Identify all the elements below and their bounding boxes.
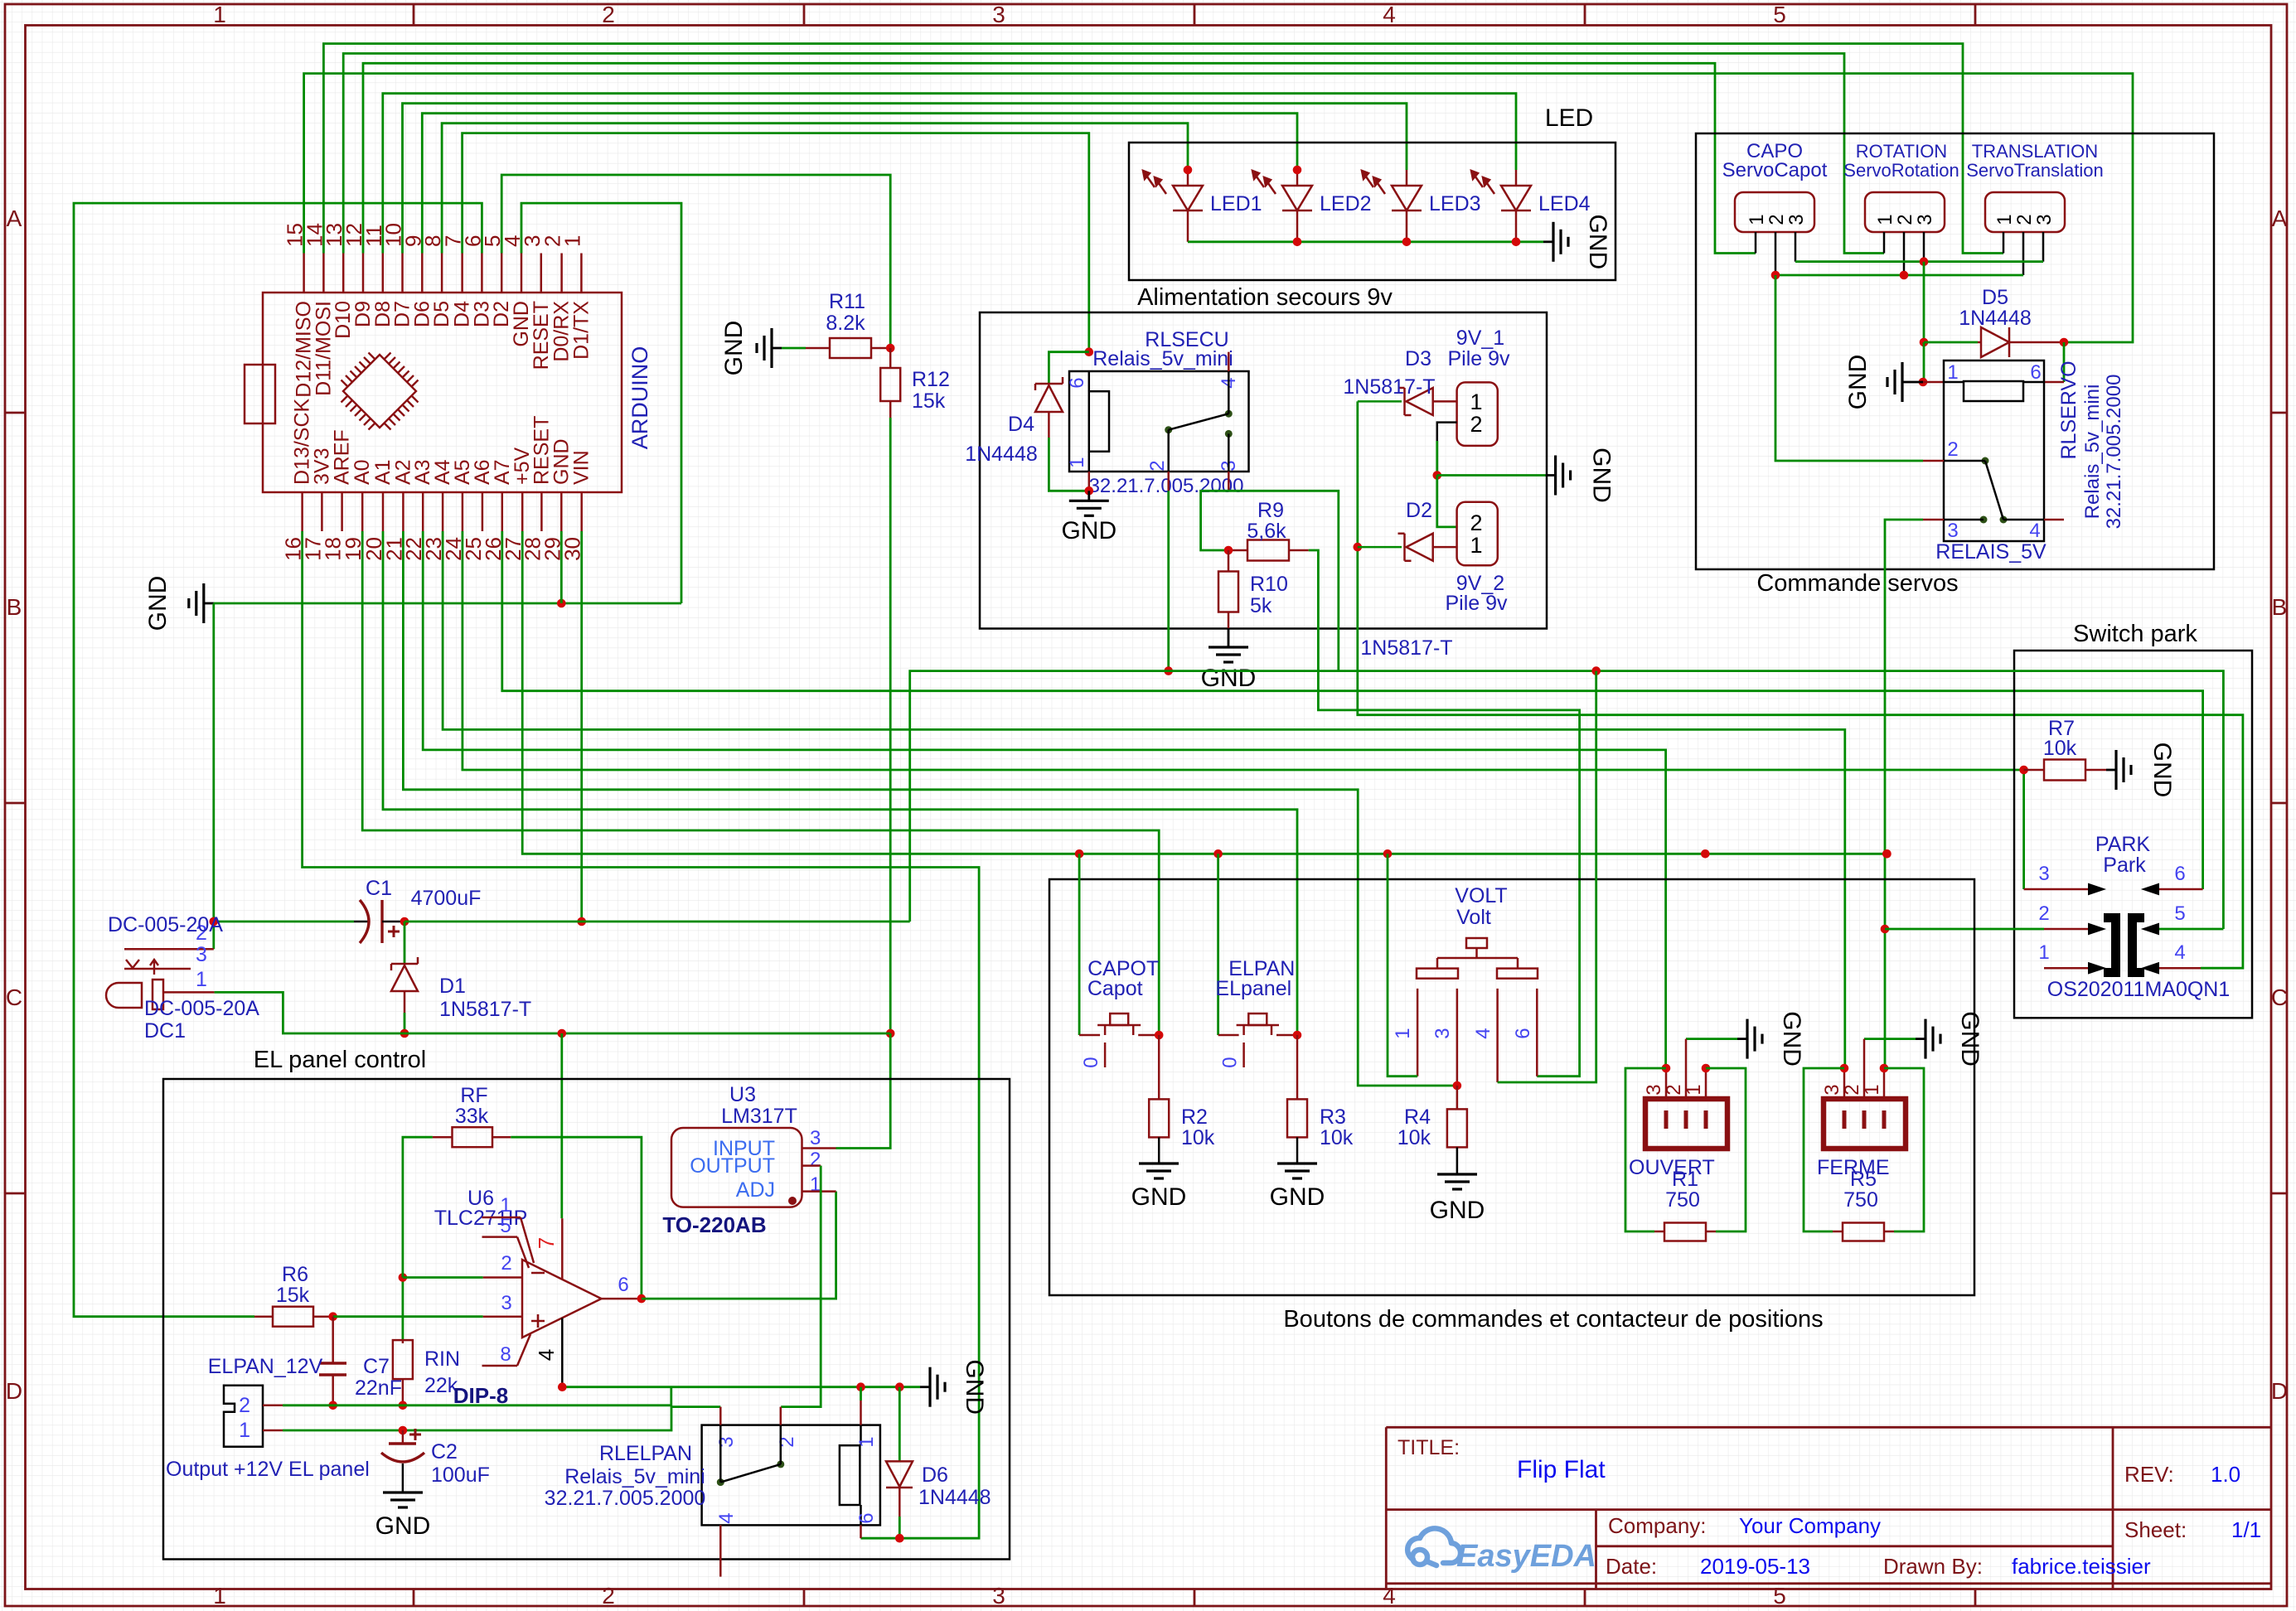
svg-text:1.0: 1.0: [2211, 1462, 2240, 1487]
DC1 pin2 lead: [124, 948, 214, 951]
wire +12V riser to park line: [910, 671, 2224, 929]
commande servos box: [1696, 133, 2214, 569]
wire R9 to VOLT pin6: [1309, 550, 1580, 1076]
svg-text:R5: R5: [1850, 1168, 1877, 1191]
svg-text:8.2k: 8.2k: [826, 312, 865, 335]
servo connector pin stubs: [1755, 232, 1757, 254]
svg-text:Switch park: Switch park: [2073, 621, 2197, 647]
wire D5 anode: [1924, 341, 1978, 344]
junction +5V at CAPOT: [1075, 849, 1084, 859]
wire D7 pin10 to LED3: [403, 104, 1407, 254]
servo connector CAPO: [1735, 192, 1814, 232]
svg-text:6: 6: [2174, 863, 2185, 885]
ground symbol OUVERT pin2: [1686, 1038, 1737, 1040]
junction relay pin1 gnd: [856, 1382, 865, 1391]
svg-text:1: 1: [1470, 533, 1482, 558]
svg-text:1: 1: [559, 235, 584, 247]
svg-text:32.21.7.005.2000: 32.21.7.005.2000: [545, 1487, 706, 1510]
svg-text:750: 750: [1843, 1188, 1878, 1212]
svg-text:1N5817-T: 1N5817-T: [439, 998, 531, 1021]
barrel jack DC1: [106, 980, 163, 1009]
junction +5V at OUVERT pin1: [1701, 849, 1710, 859]
junction D2 anode on rail: [1354, 543, 1363, 552]
svg-text:Company:: Company:: [1608, 1513, 1707, 1538]
svg-text:3: 3: [715, 1436, 738, 1447]
connector OUVERT: [1645, 1099, 1727, 1149]
svg-text:1: 1: [213, 1583, 226, 1609]
junction D6 top gnd: [895, 1382, 904, 1391]
DC1 pin1 lead: [163, 991, 215, 994]
wire GND vertical to DC jack: [212, 603, 215, 949]
button CAPOT: [1079, 1034, 1100, 1037]
resistor R3: [1296, 1035, 1299, 1099]
svg-text:6: 6: [618, 1274, 628, 1296]
svg-text:D: D: [2271, 1378, 2288, 1404]
svg-text:1: 1: [1947, 361, 1958, 384]
svg-text:2: 2: [1146, 460, 1169, 471]
svg-text:3: 3: [1914, 214, 1936, 225]
wire battery diodes common rail: [1358, 401, 2243, 968]
svg-text:B: B: [2272, 594, 2288, 620]
diode D2: [1358, 534, 1457, 561]
wire U3 OUTPUT to relay pin2: [781, 1166, 821, 1407]
switch park box: [2014, 651, 2252, 1018]
relay RLELPAN coil: [840, 1445, 860, 1505]
svg-text:0: 0: [1080, 1057, 1102, 1067]
svg-text:Flip Flat: Flip Flat: [1517, 1456, 1606, 1483]
arduino bottom pin stubs: [301, 492, 303, 531]
wire D4 to pin1 node: [1049, 438, 1088, 491]
svg-text:3: 3: [1643, 1084, 1665, 1095]
svg-text:Date:: Date:: [1606, 1554, 1657, 1579]
wire CAPOT feed: [1078, 854, 1081, 1035]
svg-text:10k: 10k: [1181, 1126, 1215, 1149]
connector FERME: [1824, 1099, 1906, 1149]
relay RLSECU pin3 stub: [1228, 472, 1230, 491]
svg-text:REV:: REV:: [2124, 1462, 2174, 1487]
junction servo pwr at ROTATION: [1900, 271, 1909, 280]
wire D9 pin12 to CAPO pin1: [363, 63, 1756, 253]
junction servo pwr at CAPO: [1771, 271, 1780, 280]
resistor R10: [1228, 550, 1230, 572]
wire D3 pin6 left rail to R6: [74, 203, 482, 1317]
ground symbol LED rail: [1543, 240, 1553, 243]
LED section box: [1129, 143, 1615, 280]
arduino crystal rectangle: [245, 365, 275, 423]
svg-text:4: 4: [1383, 2, 1396, 27]
resistor R1 loop: [1625, 1068, 1666, 1231]
svg-text:R3: R3: [1320, 1105, 1346, 1129]
servo connector TRANSLATION: [1985, 192, 2065, 232]
svg-text:ARDUINO: ARDUINO: [627, 346, 652, 450]
svg-text:6: 6: [1066, 377, 1088, 388]
svg-text:D5: D5: [1982, 286, 2008, 309]
svg-text:ELpanel: ELpanel: [1215, 977, 1291, 1000]
svg-text:2: 2: [602, 2, 615, 27]
opamp U6 pin1 stub: [482, 1217, 521, 1219]
svg-text:GND: GND: [1584, 214, 1611, 269]
wire servo power bus pin2: [1775, 274, 2023, 277]
wire VOLT pin1 to +5: [1388, 854, 1417, 1076]
svg-text:6: 6: [855, 1512, 878, 1523]
junction RIN RF opamp minus: [399, 1273, 408, 1282]
wire DC1 pin1 to raw12 rail: [215, 992, 891, 1033]
wire RF to opamp output node: [511, 1137, 642, 1299]
title block outline: [1386, 1426, 2271, 1429]
junction pin29 GND: [557, 599, 566, 608]
svg-text:DC-005-20A: DC-005-20A: [144, 997, 259, 1020]
svg-text:C2: C2: [431, 1440, 458, 1463]
svg-text:10k: 10k: [1320, 1126, 1354, 1149]
battery connector 9V_1: [1457, 382, 1498, 446]
ground symbol R10: [1228, 628, 1230, 647]
wire D2 pin5 to R11 R12 node: [501, 175, 890, 348]
svg-text:1: 1: [196, 968, 207, 991]
wire after-diode +12V rail: [214, 921, 354, 923]
svg-text:3: 3: [2033, 214, 2056, 225]
junction LED1 top: [1184, 166, 1193, 175]
svg-text:D1: D1: [439, 975, 466, 998]
battery connector 9V_2: [1457, 502, 1498, 566]
svg-text:Relais_5v_mini: Relais_5v_mini: [2081, 385, 2104, 520]
resistor R6: [254, 1315, 273, 1318]
svg-text:D: D: [6, 1378, 22, 1404]
svg-text:B: B: [7, 594, 22, 620]
svg-text:Pile 9v: Pile 9v: [1445, 592, 1508, 615]
arduino top pin stubs: [303, 254, 305, 293]
svg-text:C7: C7: [363, 1355, 390, 1378]
svg-text:4: 4: [534, 1349, 559, 1361]
svg-text:5: 5: [1773, 1583, 1786, 1609]
svg-text:3: 3: [196, 943, 207, 966]
svg-text:32.21.7.005.2000: 32.21.7.005.2000: [1089, 475, 1244, 497]
svg-text:LED1: LED1: [1210, 192, 1262, 215]
junction RIN on ELPAN pin2 line: [399, 1401, 408, 1410]
junction VIN on +12V rail: [577, 917, 586, 926]
wire D8 pin11 to LED4: [383, 94, 1516, 254]
svg-text:EL panel control: EL panel control: [254, 1047, 427, 1073]
svg-text:DC1: DC1: [144, 1019, 186, 1043]
wire ground rail: [214, 602, 681, 605]
svg-text:GND: GND: [1201, 665, 1257, 692]
svg-text:2: 2: [1894, 214, 1916, 225]
wire D4 pin7 to RLSECU coil: [463, 133, 1089, 352]
relay RELAIS_5V pin3 stub: [1923, 519, 1944, 521]
svg-text:GND: GND: [144, 576, 172, 631]
boutons box: [1049, 879, 1974, 1295]
svg-text:4700uF: 4700uF: [411, 887, 482, 910]
wire relay pin3 down to +5 and PARK pin2: [1885, 520, 1923, 1068]
wire A5 pin24 to R7 node: [463, 531, 2024, 770]
svg-text:32.21.7.005.2000: 32.21.7.005.2000: [2103, 375, 2125, 530]
svg-text:R10: R10: [1250, 573, 1288, 596]
svg-text:5,6k: 5,6k: [1247, 520, 1286, 543]
svg-text:D3: D3: [1405, 347, 1431, 370]
wire output to U3 ADJ: [642, 1192, 836, 1299]
svg-text:1N4448: 1N4448: [1959, 307, 2032, 330]
svg-text:RESET: RESET: [530, 301, 553, 370]
svg-text:1: 1: [2038, 941, 2049, 964]
wire A0 pin19 to CAPOT button: [362, 531, 1159, 1035]
ground symbol at R11: [772, 347, 782, 350]
svg-text:Commande servos: Commande servos: [1756, 570, 1958, 597]
svg-text:R1: R1: [1672, 1168, 1698, 1191]
switch VOLT pin1: [1417, 989, 1419, 1076]
svg-text:3: 3: [1821, 1084, 1843, 1095]
junction ELPAN R3: [1293, 1031, 1302, 1040]
ground symbol el panel: [920, 1386, 930, 1388]
svg-text:A: A: [2272, 206, 2288, 231]
svg-text:LED: LED: [1545, 104, 1593, 132]
svg-text:GND: GND: [1270, 1183, 1325, 1211]
svg-text:LED2: LED2: [1320, 192, 1372, 215]
svg-text:6: 6: [2030, 361, 2041, 384]
svg-text:GND: GND: [1588, 447, 1615, 503]
relay RELAIS_5V coil: [1964, 381, 2023, 401]
svg-text:R2: R2: [1181, 1105, 1208, 1129]
svg-text:2: 2: [239, 1394, 250, 1417]
svg-text:2: 2: [501, 1252, 511, 1275]
svg-text:1N4448: 1N4448: [965, 443, 1038, 466]
svg-text:1N5817-T: 1N5817-T: [1343, 375, 1435, 399]
wire LED cathode rail: [1188, 240, 1543, 243]
resistor R9: [1228, 549, 1247, 552]
PARK pin2 lead: [1885, 928, 2044, 931]
svg-text:VOLT: VOLT: [1455, 884, 1507, 907]
svg-text:750: 750: [1665, 1188, 1700, 1212]
svg-text:5: 5: [1773, 2, 1786, 27]
svg-text:4: 4: [2174, 941, 2185, 964]
diode D5: [1978, 327, 2064, 357]
junction RLSECU pin6 node: [1085, 347, 1094, 356]
svg-text:5: 5: [500, 1215, 511, 1237]
wire A7 pin26 to PARK pin6: [502, 531, 2203, 889]
resistor R12: [889, 348, 892, 368]
wire D5 pin8 to LED1: [442, 123, 1188, 254]
svg-text:Output +12V EL panel: Output +12V EL panel: [166, 1458, 370, 1481]
wire +5V pin27 rail: [522, 531, 1887, 854]
resistor R4: [1456, 1086, 1459, 1109]
wire servo ground bus pin3: [1795, 260, 2043, 263]
svg-text:GND: GND: [1061, 517, 1117, 544]
svg-text:GND: GND: [1131, 1183, 1187, 1211]
svg-text:2019-05-13: 2019-05-13: [1700, 1554, 1810, 1579]
diode D6: [899, 1387, 901, 1462]
svg-text:1N5817-T: 1N5817-T: [1360, 636, 1452, 660]
junction LED2 bottom: [1293, 238, 1302, 247]
svg-text:C1: C1: [366, 877, 392, 900]
border row ticks: [5, 412, 26, 414]
svg-text:Sheet:: Sheet:: [2124, 1517, 2187, 1542]
svg-text:6: 6: [1512, 1028, 1534, 1038]
relay RLSECU pin4 stub: [1228, 352, 1230, 371]
svg-text:1: 1: [810, 1173, 821, 1196]
resistor R11: [830, 338, 871, 358]
svg-text:2: 2: [1766, 214, 1788, 225]
wire ELPAN pin2 gnd line: [283, 1387, 671, 1405]
junction D5 cathode: [2060, 338, 2069, 347]
LED LED3: [1362, 170, 1422, 242]
svg-text:1N4448: 1N4448: [918, 1486, 991, 1509]
svg-text:ROTATION: ROTATION: [1856, 141, 1947, 162]
wire CAPO pin2 to relay pin2: [1775, 275, 1923, 461]
svg-text:3: 3: [810, 1127, 821, 1149]
wire servo gnd down to relay pin1: [1923, 342, 1925, 382]
relay RELAIS_5V body: [1944, 360, 2044, 541]
junction R12 wire on raw 12V: [886, 1029, 895, 1038]
junction VOLT pin3 R4: [1453, 1081, 1462, 1091]
junction opamp pin4 gnd: [558, 1382, 567, 1391]
svg-text:3: 3: [2038, 863, 2049, 885]
junction R6 opamp plus: [328, 1312, 337, 1321]
svg-text:RF: RF: [460, 1084, 487, 1107]
wire +12V rail to park line riser: [404, 921, 910, 923]
wire ELPAN pin1 to relay pin3: [283, 1407, 720, 1430]
junction servo gnd at ROTATION: [1920, 257, 1929, 266]
svg-text:Drawn By:: Drawn By:: [1883, 1554, 1983, 1579]
svg-text:R11: R11: [829, 290, 865, 313]
svg-text:10k: 10k: [2043, 737, 2077, 760]
svg-text:1/1: 1/1: [2231, 1517, 2261, 1542]
relay RLSECU coil: [1089, 391, 1109, 452]
svg-text:Alimentation secours 9v: Alimentation secours 9v: [1137, 284, 1393, 311]
svg-text:GND: GND: [1956, 1011, 1984, 1067]
junction battery GND node: [1433, 471, 1442, 480]
resistor R2: [1158, 1035, 1160, 1099]
svg-text:0: 0: [1219, 1057, 1242, 1067]
wire RLELPAN pin1 to gnd: [860, 1387, 862, 1401]
junction FERME pin3: [1840, 1064, 1849, 1073]
svg-text:LED4: LED4: [1538, 192, 1591, 215]
svg-text:1: 1: [1993, 214, 2016, 225]
regulator U3 body: [671, 1128, 802, 1207]
connector ELPAN_12V glyph: [224, 1386, 263, 1447]
relay RLSECU switch contacts: [1165, 426, 1172, 433]
svg-text:DIP-8: DIP-8: [453, 1383, 508, 1408]
wire GND pin4 to ground rail: [521, 203, 681, 603]
svg-text:1: 1: [213, 2, 226, 27]
PARK pin1 lead: [2044, 967, 2089, 970]
opamp U6 pin3 plus input: [483, 1315, 522, 1318]
svg-text:10k: 10k: [1397, 1126, 1431, 1149]
svg-text:3: 3: [1431, 1028, 1454, 1038]
wire A3 pin22 to OUVERT pin3: [423, 531, 1665, 1068]
svg-text:Boutons de commandes et contac: Boutons de commandes et contacteur de po…: [1283, 1306, 1823, 1333]
junction +5V at ELPAN: [1213, 849, 1223, 859]
el panel control box: [163, 1079, 1010, 1560]
svg-text:Capot: Capot: [1087, 977, 1143, 1000]
wire D12 pin15 to servo relay coil: [304, 74, 2133, 342]
svg-text:1: 1: [1470, 389, 1482, 414]
svg-text:33k: 33k: [455, 1105, 489, 1128]
svg-text:1: 1: [1874, 214, 1896, 225]
svg-text:Volt: Volt: [1456, 906, 1491, 929]
junction LED2 top: [1293, 166, 1302, 175]
wire battery GND node to symbol: [1437, 474, 1546, 477]
wire servo gnd bus down to D5 node: [1923, 262, 1925, 342]
svg-text:GND: GND: [1430, 1197, 1485, 1224]
wire raw12 down to U3 INPUT: [836, 1033, 891, 1149]
junction C2 on pin1 line: [399, 1426, 408, 1435]
PARK pin6 lead: [2158, 888, 2203, 891]
resistor R5 loop: [1804, 1068, 1844, 1231]
opamp U6 pin4 ground: [561, 1318, 564, 1387]
svg-text:4: 4: [1383, 1583, 1396, 1609]
resistor RF: [403, 1137, 433, 1277]
relay RELAIS_5V pin2 stub: [1923, 460, 1944, 462]
svg-text:100uF: 100uF: [431, 1463, 490, 1487]
wire RLSECU pin3 to park5 line: [1228, 491, 1339, 670]
relay RLELPAN pin stubs: [719, 1407, 722, 1425]
svg-text:15k: 15k: [912, 389, 946, 413]
switch VOLT pin3: [1456, 989, 1459, 1086]
svg-text:TRANSLATION: TRANSLATION: [1972, 141, 2098, 162]
svg-text:fabrice.teissier: fabrice.teissier: [2012, 1554, 2151, 1579]
svg-text:2: 2: [602, 1583, 615, 1609]
svg-text:2: 2: [1470, 510, 1482, 535]
svg-text:4: 4: [715, 1512, 738, 1523]
junction opamp output: [637, 1294, 647, 1304]
svg-text:ServoTranslation: ServoTranslation: [1966, 160, 2103, 181]
svg-text:R4: R4: [1404, 1105, 1431, 1129]
wire VOLT pin4 to +12 park line: [1498, 671, 1596, 1082]
svg-text:ServoRotation: ServoRotation: [1843, 160, 1959, 181]
relay RELAIS_5V pin1 stub: [1923, 381, 1944, 384]
svg-text:GND: GND: [961, 1359, 988, 1415]
junction relay servo pin1 gnd: [1919, 378, 1928, 387]
opto switch PARK brackets: [2104, 913, 2144, 977]
button ELPAN: [1218, 1034, 1239, 1037]
svg-text:RELAIS_5V: RELAIS_5V: [1935, 540, 2047, 564]
wire D13 pin16 to RLELPAN coil: [303, 531, 980, 1538]
PARK pin4 lead: [2158, 967, 2201, 970]
capacitor C2: [402, 1430, 404, 1444]
border column ticks: [413, 4, 415, 26]
svg-text:2: 2: [2038, 902, 2049, 925]
svg-text:D6: D6: [922, 1463, 948, 1487]
resistor R7: [2024, 769, 2044, 772]
svg-text:2: 2: [810, 1149, 821, 1171]
svg-text:OUTPUT: OUTPUT: [690, 1154, 775, 1178]
junction RLSECU pin1 GND: [1085, 486, 1094, 496]
junction relay3 net at +5 rail: [1882, 849, 1892, 859]
arduino MCU diamond glyph: [341, 353, 419, 430]
junction +5V at FERME pin1: [1882, 849, 1892, 859]
svg-text:GND: GND: [1778, 1011, 1805, 1067]
ground symbol R7: [2106, 769, 2116, 772]
wire GND to R11: [782, 347, 806, 350]
resistor RIN: [401, 1278, 404, 1341]
junction relay3 net at PARK pin2 line: [1881, 925, 1890, 934]
wire GND node to 9V_2 pin2: [1437, 476, 1457, 527]
svg-text:1: 1: [1746, 214, 1768, 225]
relay RLSECU body: [1069, 371, 1249, 472]
svg-text:R6: R6: [282, 1263, 308, 1286]
svg-text:Relais_5v_mini: Relais_5v_mini: [564, 1465, 705, 1488]
arduino module body: [263, 293, 622, 492]
junction VOLT pin4 on park line: [1591, 666, 1601, 675]
svg-text:Pile 9v: Pile 9v: [1447, 347, 1510, 370]
LED LED2: [1252, 170, 1312, 242]
svg-text:PARK: PARK: [2095, 833, 2151, 856]
junction +5V at VOLT pin1: [1383, 849, 1393, 859]
svg-text:1: 1: [1066, 457, 1088, 467]
svg-text:D1/TX: D1/TX: [569, 301, 593, 360]
svg-text:ELPAN_12V: ELPAN_12V: [208, 1355, 323, 1378]
relay RELAIS_5V switch: [1982, 457, 1989, 465]
EasyEDA logo cloud: [1407, 1528, 1460, 1565]
junction raw12 at opamp supply: [558, 1029, 567, 1038]
